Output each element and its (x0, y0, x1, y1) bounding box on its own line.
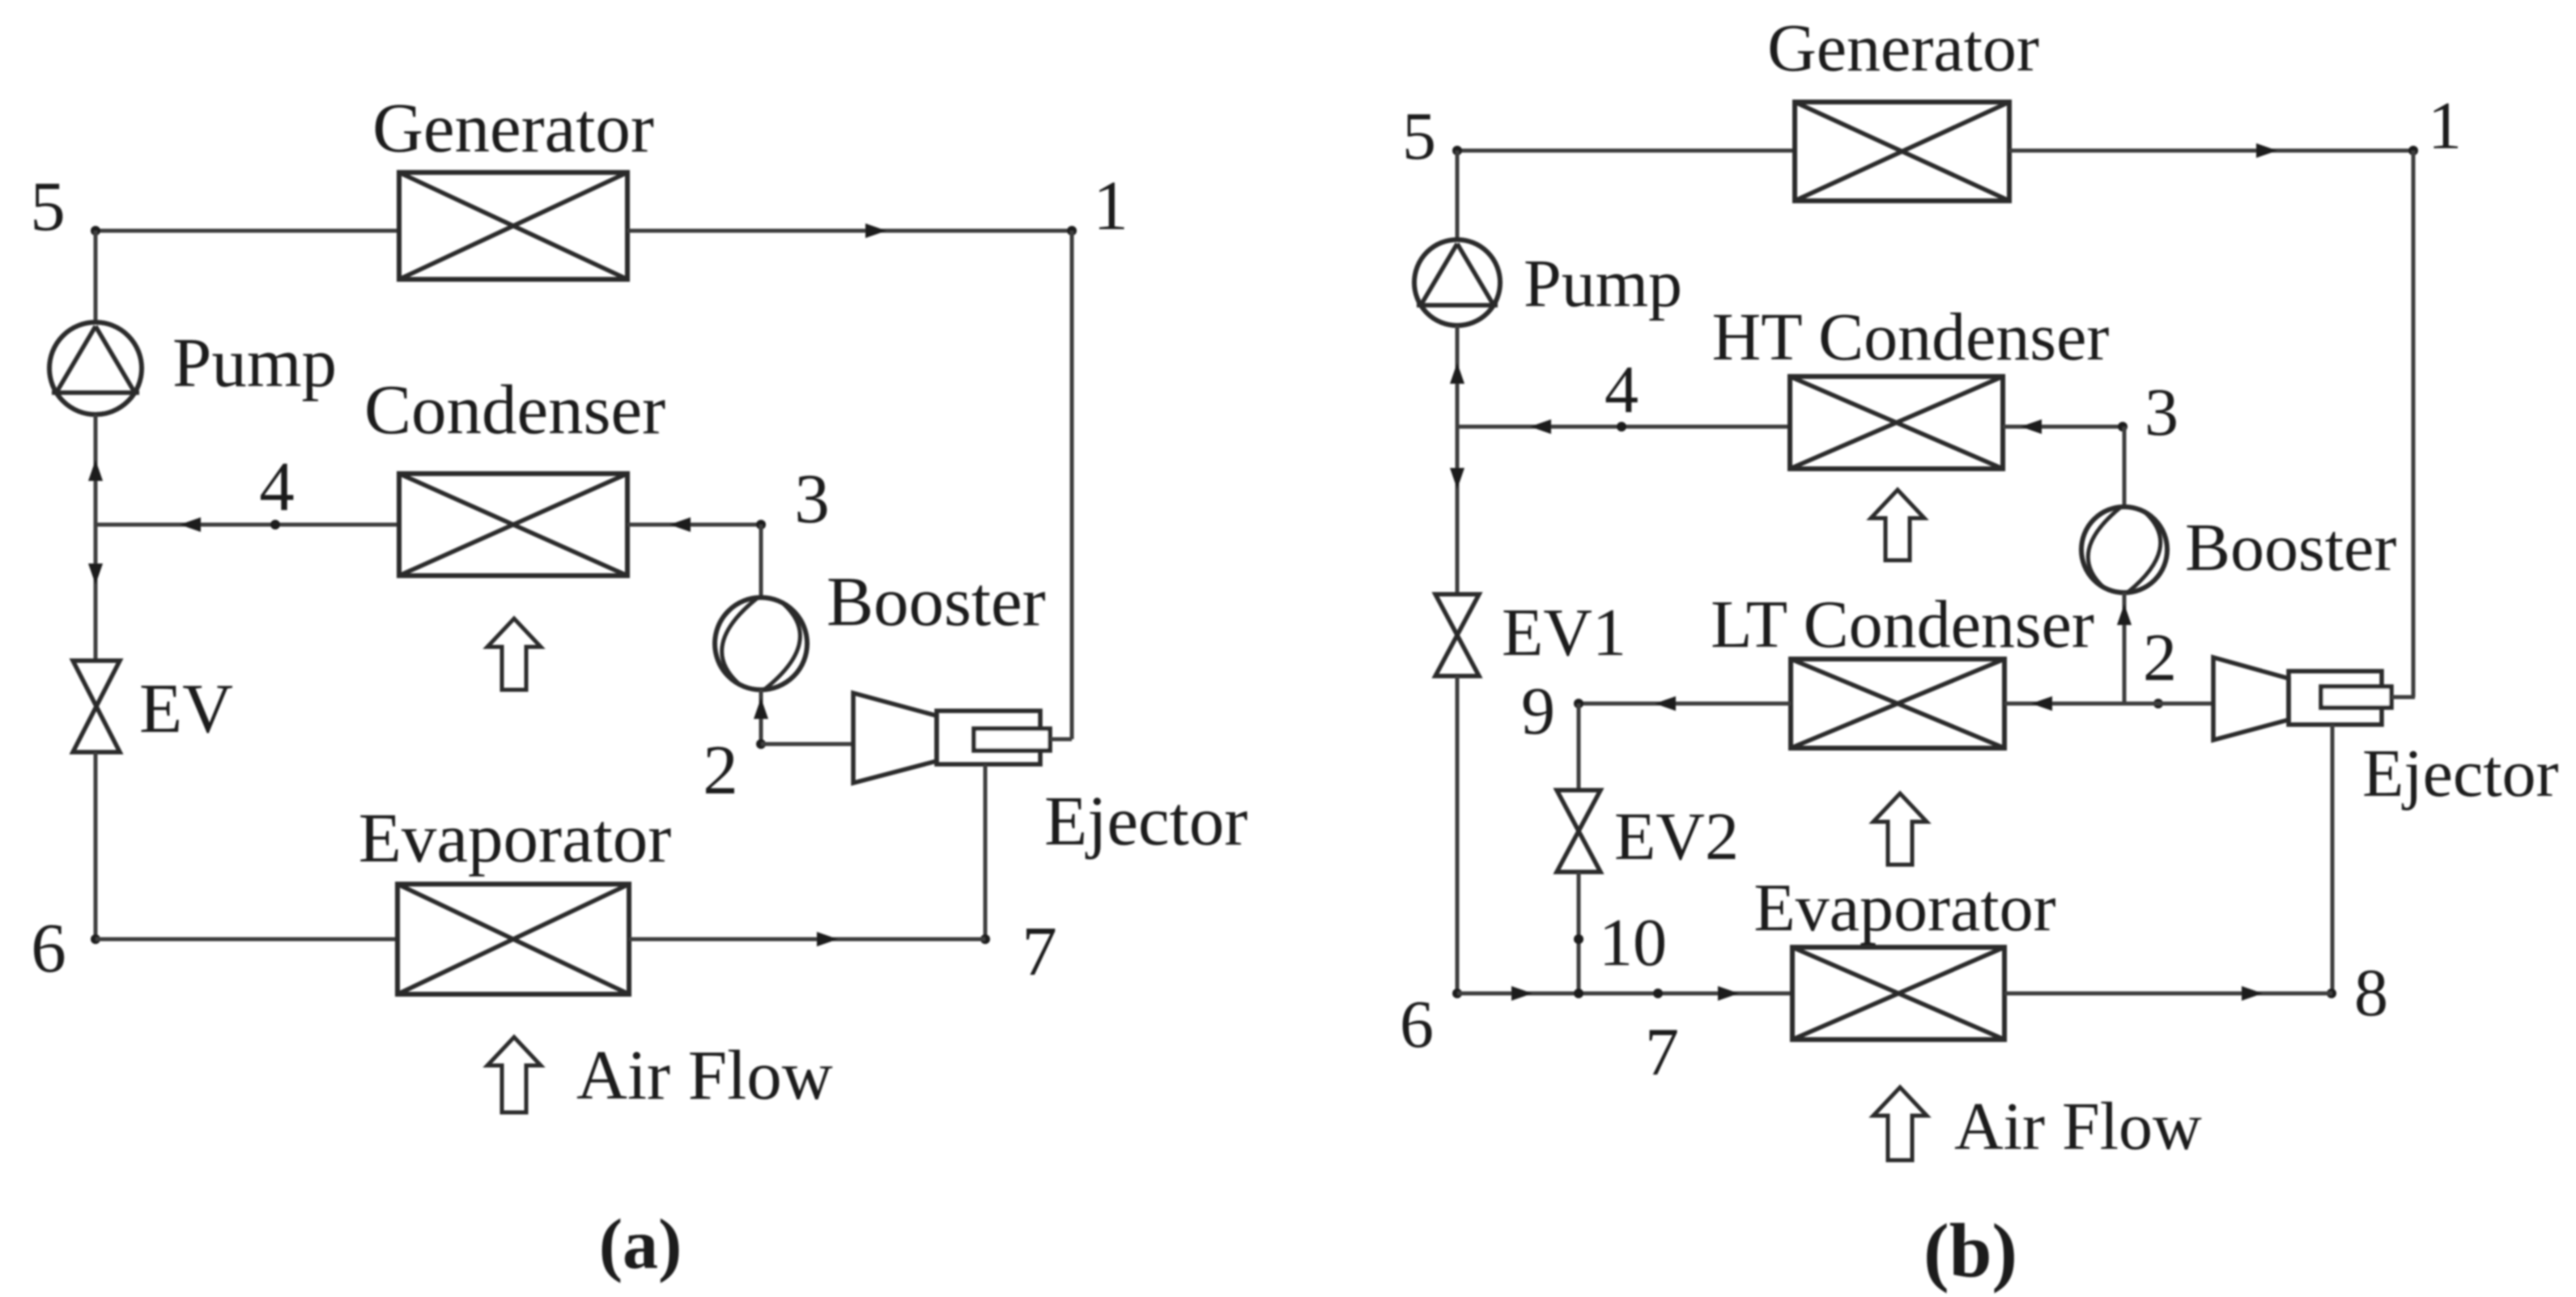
svg-text:1: 1 (2428, 88, 2462, 164)
wire node 9 down to EV2 (b) (1577, 704, 1581, 790)
wire condenser to node 3 (a) (627, 523, 761, 527)
svg-text:(b): (b) (1923, 1208, 2017, 1294)
svg-text:4: 4 (259, 447, 295, 525)
pump circle (b) (1414, 240, 1500, 325)
pump triangle (b) (1417, 244, 1498, 305)
arrowhead up to booster (a) (754, 698, 768, 719)
svg-text:3: 3 (794, 459, 830, 538)
wire evaporator to node 8 (b) (2004, 992, 2332, 996)
svg-text:EV1: EV1 (1502, 595, 1626, 670)
wire generator to node 1 (b) (2009, 149, 2413, 153)
wire node3 down to booster (b) (2123, 427, 2127, 508)
booster circle (a) (715, 597, 807, 690)
wire EV1 down to node 6 (b) (1456, 676, 1460, 993)
arrowhead left on node2 wire (b) (2031, 696, 2052, 711)
EV2 valve (b) (1557, 790, 1600, 872)
node 3 dot (b) (2118, 422, 2128, 432)
wire EV down to node 6 (a) (94, 752, 98, 939)
ejector nozzle rect (a) (974, 729, 1050, 751)
wire booster to node 2 (a) (759, 690, 763, 744)
junction dot EV2 line on bottom wire (b) (1574, 989, 1583, 998)
ejector mixing chamber rect (a) (937, 711, 1040, 764)
arrowhead left on node4 wire (b) (1530, 419, 1551, 434)
node 8 dot (b) (2327, 989, 2336, 998)
svg-text:3: 3 (2145, 375, 2179, 450)
svg-text:Booster: Booster (827, 562, 1046, 640)
wire node6 to evaporator (b) (1457, 992, 1791, 996)
condenser box (a) (399, 474, 627, 576)
node 4 dot (b) (1617, 422, 1626, 432)
wire nozzle to right line (b) (2391, 695, 2415, 700)
svg-text:Ejector: Ejector (1044, 781, 1248, 860)
evaporator box (a) (397, 884, 629, 994)
node 1 dot (a) (1067, 226, 1077, 236)
wire node1 down to ejector (a) (1070, 231, 1074, 739)
wire node5 to generator (b) (1457, 149, 1795, 153)
wire node3 down to booster (a) (759, 525, 763, 599)
wire node6 to evaporator (a) (96, 938, 397, 942)
svg-text:5: 5 (30, 167, 66, 245)
node 4 dot (a) (270, 520, 280, 529)
node 7 dot (a) (980, 934, 990, 944)
pump triangle (a) (52, 326, 139, 393)
wire evaporator to node 7 (a) (629, 938, 985, 942)
wire HT condenser to node 3 (b) (2003, 425, 2124, 429)
LT condenser box (b) (1791, 659, 2004, 748)
node 3 dot (a) (756, 520, 766, 529)
node 2 dot (b) (2153, 699, 2163, 708)
svg-text:6: 6 (31, 908, 66, 987)
booster circle (b) (2081, 507, 2167, 593)
booster arcs (b) (2088, 508, 2160, 592)
node 7 dot (b) (1653, 989, 1663, 998)
arrowhead down on left line (b) (1450, 468, 1464, 489)
svg-text:10: 10 (1599, 905, 1667, 980)
arrowhead right on evaporator outlet (a) (817, 932, 838, 946)
svg-text:4: 4 (1605, 352, 1639, 427)
svg-text:Generator: Generator (1767, 11, 2039, 86)
svg-text:2: 2 (2143, 620, 2177, 695)
svg-text:Condenser: Condenser (364, 370, 665, 449)
svg-text:Generator: Generator (372, 88, 654, 167)
svg-text:HT Condenser: HT Condenser (1712, 300, 2110, 375)
wire node4 junction down to EV (a) (94, 525, 98, 661)
ejector mixing chamber rect (b) (2289, 671, 2382, 725)
svg-text:(a): (a) (599, 1206, 682, 1284)
arrowhead left on node3 wire (a) (670, 517, 691, 532)
arrowhead right on evaporator outlet (b) (2242, 986, 2263, 1001)
arrowhead left on node4 wire (a) (180, 517, 201, 532)
svg-text:Booster: Booster (2185, 510, 2396, 585)
svg-text:Pump: Pump (1524, 246, 1682, 321)
svg-text:EV: EV (139, 669, 233, 747)
svg-text:Ejector: Ejector (2362, 736, 2559, 811)
node 10 dot (b) (1574, 934, 1583, 944)
pump circle (a) (49, 322, 142, 415)
svg-text:Air Flow: Air Flow (576, 1035, 833, 1114)
node 6 dot (b) (1452, 989, 1462, 998)
svg-text:7: 7 (1022, 912, 1057, 990)
arrowhead up on left line (b) (1450, 363, 1464, 384)
wire generator to node 1 (a) (627, 229, 1072, 233)
wire node5 down to pump (b) (1456, 151, 1460, 241)
svg-text:6: 6 (1400, 987, 1434, 1062)
generator box (b) (1795, 102, 2009, 201)
wire pump to node4 junction (b) (1456, 325, 1460, 427)
EV valve (a) (73, 661, 120, 752)
ejector diffuser trapezoid (a) (853, 693, 937, 783)
wire ejector down to node 7 (a) (984, 764, 988, 939)
HT condenser box (b) (1790, 376, 2003, 469)
node 2 dot (a) (756, 739, 766, 749)
wire node2 to ejector (a) (761, 742, 853, 746)
booster arcs (a) (722, 598, 801, 689)
svg-text:1: 1 (1093, 166, 1129, 245)
arrowhead right 2 on bottom wire (b) (1718, 986, 1739, 1001)
arrowhead right 1 on bottom wire (b) (1511, 986, 1532, 1001)
air flow block arrow (b) (1873, 1087, 1927, 1160)
arrowhead down on left line (a) (88, 563, 103, 585)
wire node4 junction down to EV1 (b) (1456, 427, 1460, 594)
svg-text:EV2: EV2 (1614, 799, 1739, 874)
ejector diffuser trapezoid (b) (2213, 657, 2289, 740)
wire EV2 down to bottom wire (b) (1577, 872, 1581, 993)
node 9 dot (b) (1574, 699, 1583, 708)
svg-text:8: 8 (2354, 955, 2388, 1031)
air flow block arrow (a) (487, 1037, 541, 1112)
arrowhead right on top wire (a) (865, 223, 886, 238)
EV1 valve (b) (1435, 594, 1479, 676)
air flow block arrow under HT condenser (b) (1871, 490, 1924, 560)
node 1 dot (b) (2408, 146, 2418, 155)
svg-text:Air Flow: Air Flow (1954, 1089, 2202, 1164)
air flow block arrow under condenser (a) (487, 619, 541, 690)
wire LT condenser right to ejector (b) (2004, 702, 2213, 706)
arrowhead up to booster (b) (2117, 604, 2132, 625)
air flow block arrow under LT condenser (b) (1873, 793, 1927, 865)
wire booster down to node2 junction (b) (2123, 593, 2127, 704)
wire node 9 to LT condenser (b) (1579, 702, 1791, 706)
svg-text:Evaporator: Evaporator (1753, 870, 2055, 946)
wire node4 horizontal (b) (1457, 425, 1790, 429)
svg-text:2: 2 (703, 730, 738, 809)
wire ejector down to node 8 (b) (2331, 725, 2335, 993)
node 6 dot (a) (91, 934, 100, 944)
wire pump to node4 junction (a) (94, 415, 98, 525)
node 5 dot (a) (91, 226, 100, 236)
wire node1 down to ejector (b) (2412, 151, 2416, 697)
wire nozzle to right line (a) (1050, 738, 1072, 742)
arrowhead up on left line (a) (88, 460, 103, 481)
wire node5 down to pump (a) (94, 231, 98, 325)
arrowhead left on node3 wire (b) (2021, 419, 2042, 434)
svg-text:Pump: Pump (172, 323, 337, 402)
svg-text:7: 7 (1645, 1014, 1679, 1090)
wire node4 horizontal (a) (96, 523, 399, 527)
arrowhead left on node9 wire (b) (1655, 696, 1676, 711)
ejector nozzle rect (b) (2321, 687, 2391, 708)
node 5 dot (b) (1452, 146, 1462, 155)
svg-text:Evaporator: Evaporator (359, 798, 672, 877)
svg-text:LT Condenser: LT Condenser (1711, 587, 2094, 662)
evaporator box (b) (1792, 947, 2004, 1040)
arrowhead right on top wire (b) (2256, 143, 2277, 158)
svg-text:5: 5 (1402, 99, 1436, 174)
wire node5 to generator (a) (96, 229, 399, 233)
svg-text:9: 9 (1521, 674, 1555, 749)
generator box (a) (399, 172, 627, 279)
